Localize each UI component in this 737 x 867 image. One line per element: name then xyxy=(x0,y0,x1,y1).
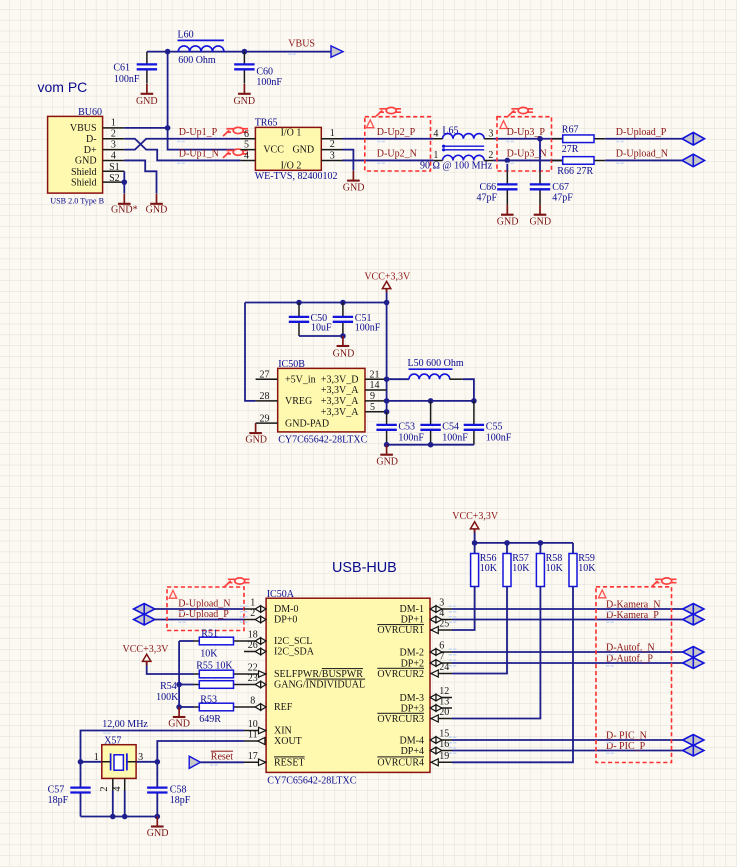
ground below C61 xyxy=(136,84,158,107)
svg-text:GND: GND xyxy=(529,216,551,227)
svg-text:DM-3: DM-3 xyxy=(400,693,424,704)
svg-text:1: 1 xyxy=(111,118,116,129)
capacitor C53 100nF xyxy=(376,412,424,445)
svg-text:10uF: 10uF xyxy=(311,323,332,334)
svg-text:DM-0: DM-0 xyxy=(274,604,298,615)
wire XOUT run xyxy=(157,741,244,762)
wire joining C50/C51 bottoms xyxy=(299,335,343,337)
svg-text:GND: GND xyxy=(292,145,314,156)
svg-text:47pF: 47pF xyxy=(476,193,497,204)
wire L65 pin2 to R66 xyxy=(493,159,562,161)
svg-text:vom PC: vom PC xyxy=(38,79,88,95)
svg-text:GND: GND xyxy=(147,828,169,839)
svg-text:GND: GND xyxy=(497,216,519,227)
ground GND* for shields xyxy=(111,194,138,216)
svg-text:9: 9 xyxy=(370,391,375,402)
resistor R51 10K (I2C_SCL) xyxy=(179,629,244,660)
wire VBUS feed down and right to TR65 pin 5 xyxy=(168,128,241,150)
svg-text:GND: GND xyxy=(343,182,365,193)
svg-text:XOUT: XOUT xyxy=(274,736,302,747)
svg-text:I/O 2: I/O 2 xyxy=(281,160,302,171)
svg-text:10K: 10K xyxy=(578,563,596,574)
node junction C53 bottom xyxy=(384,442,390,448)
resistor R54 100K (GANG) xyxy=(156,681,244,704)
wire left drop to IC50B pin 28 xyxy=(245,303,256,401)
svg-text:GANG/INDIVIDUAL: GANG/INDIVIDUAL xyxy=(274,680,365,691)
svg-text:10K: 10K xyxy=(200,649,218,660)
node junction at BU60 pin1 xyxy=(165,125,171,131)
off sheet connector D-Autof._P xyxy=(683,658,704,669)
svg-text:D-Up1_N: D-Up1_N xyxy=(179,149,219,160)
differential pair directive above D-Up3 box xyxy=(508,107,533,116)
svg-text:22: 22 xyxy=(248,663,258,674)
svg-text:D-Up2_N: D-Up2_N xyxy=(377,149,417,160)
svg-text:100nF: 100nF xyxy=(486,432,512,443)
ground below C67 xyxy=(529,205,551,228)
svg-text:6: 6 xyxy=(439,641,444,652)
node junction rail/R57 xyxy=(504,540,510,546)
svg-text:16: 16 xyxy=(439,739,449,750)
svg-text:100nF: 100nF xyxy=(442,432,468,443)
wire D-Upload_P into IC50A pin 2 xyxy=(155,619,244,621)
svg-text:Shield: Shield xyxy=(71,178,97,189)
svg-text:R51: R51 xyxy=(201,629,218,640)
pin stubs xyxy=(103,128,125,182)
resistor R57 10K xyxy=(452,543,530,674)
ground below C60 xyxy=(233,84,255,107)
wire D+ crossover to TR65 pin 6 (D-Up1_P) xyxy=(124,139,240,150)
svg-text:10K: 10K xyxy=(512,563,530,574)
svg-text:12: 12 xyxy=(439,686,449,697)
wire +3,3V rail above IC50B xyxy=(245,302,387,304)
node junction C51 bottom / gnd xyxy=(340,333,346,339)
pin stubs right 21,14,9,5 xyxy=(365,379,387,412)
capacitor C54 100nF xyxy=(420,401,468,445)
differential pair directive on D-Up1_P wire xyxy=(223,127,248,136)
svg-text:C54: C54 xyxy=(442,421,459,432)
svg-text:10: 10 xyxy=(248,719,258,730)
wire shield S1-S2 tie down xyxy=(123,171,125,193)
svg-text:GND*: GND* xyxy=(111,205,138,216)
svg-text:4: 4 xyxy=(112,787,123,792)
node junction rail/R56 xyxy=(472,540,478,546)
capacitor C57 18pF xyxy=(48,762,91,817)
svg-text:VREG: VREG xyxy=(285,396,312,407)
wire Reset to pin 17 xyxy=(200,761,244,763)
svg-text:GND: GND xyxy=(75,156,97,167)
svg-text:5: 5 xyxy=(370,402,375,413)
svg-text:D-Up1_P: D-Up1_P xyxy=(179,127,218,138)
node junction pin9 row xyxy=(384,398,390,404)
svg-text:USB-HUB: USB-HUB xyxy=(332,560,397,576)
ground below C53 xyxy=(376,445,398,468)
svg-text:D-Up2_P: D-Up2_P xyxy=(377,127,416,138)
svg-text:D-Upload_P: D-Upload_P xyxy=(616,127,667,138)
wire +3,3V_A distribution row xyxy=(387,400,474,402)
ground BU60 pin4 xyxy=(146,194,168,216)
svg-text:R67: R67 xyxy=(562,125,579,136)
wire VBUS top rail xyxy=(147,51,331,53)
svg-text:90 Ω @ 100 MHz: 90 Ω @ 100 MHz xyxy=(420,161,493,172)
svg-text:OVRCUR2: OVRCUR2 xyxy=(377,669,424,680)
svg-text:100nF: 100nF xyxy=(114,74,140,85)
node junction at S2 xyxy=(122,179,128,185)
svg-text:R55 10K: R55 10K xyxy=(196,660,233,671)
parameter set marker triangle D-Up2 xyxy=(367,120,374,128)
svg-text:OVRCUR4: OVRCUR4 xyxy=(377,757,424,768)
inductor L60 600 Ohm xyxy=(178,30,224,66)
svg-text:D- PIC_N: D- PIC_N xyxy=(606,731,647,742)
svg-text:L50 600 Ohm: L50 600 Ohm xyxy=(408,358,464,369)
svg-text:2: 2 xyxy=(111,129,116,140)
svg-text:7: 7 xyxy=(439,652,444,663)
wire R67 to port D-Upload_P xyxy=(605,138,683,140)
svg-text:C60: C60 xyxy=(256,67,273,78)
svg-text:VBUS: VBUS xyxy=(70,123,97,134)
node junction XOUT/C58/crystal xyxy=(155,759,161,765)
svg-text:SELFPWR/BUSPWR: SELFPWR/BUSPWR xyxy=(274,669,363,680)
wire TR65 pin2 to ground xyxy=(343,150,354,171)
svg-text:D-Autof._N: D-Autof._N xyxy=(606,643,655,654)
svg-text:25: 25 xyxy=(439,619,449,630)
svg-text:GND: GND xyxy=(233,96,255,107)
resistor R55 10K (SELFPWR) xyxy=(194,660,245,678)
resistor R58 10K xyxy=(452,543,564,719)
svg-text:C61: C61 xyxy=(113,63,130,74)
svg-text:Shield: Shield xyxy=(71,167,97,178)
svg-text:23: 23 xyxy=(248,673,258,684)
svg-text:2: 2 xyxy=(330,139,335,150)
svg-text:19: 19 xyxy=(439,751,449,762)
svg-text:OVRCUR3: OVRCUR3 xyxy=(377,714,424,725)
svg-text:C58: C58 xyxy=(170,784,187,795)
svg-text:VBUS: VBUS xyxy=(288,39,315,50)
differential pair directive above D-Up2 box xyxy=(376,107,401,116)
ground at IC50B pin 29 xyxy=(245,423,267,446)
wire DM-1 to D-Kamera_N xyxy=(452,608,683,610)
svg-text:600 Ohm: 600 Ohm xyxy=(178,55,216,66)
svg-text:DM-2: DM-2 xyxy=(400,647,424,658)
node junction R54 tap xyxy=(176,682,182,688)
resistor R66 27R xyxy=(552,157,606,178)
node junction C67 tap on D-Up3_P xyxy=(537,136,543,142)
wire TR65 pin3 to L65 pin1 xyxy=(343,159,434,161)
svg-text:Reset: Reset xyxy=(211,752,233,763)
off sheet connector D-Upload_P (left) xyxy=(134,614,155,625)
svg-text:15: 15 xyxy=(439,729,449,740)
node junction C66 tap on D-Up3_N xyxy=(505,158,511,164)
svg-text:VCC+3,3V: VCC+3,3V xyxy=(452,511,499,522)
differential pair directive above left box xyxy=(225,578,250,587)
off sheet connector D-Upload_P xyxy=(682,132,704,145)
off sheet connector D-Kamera_P xyxy=(683,614,704,625)
node junction VBUS rail to BU60 pin1 xyxy=(165,49,171,55)
svg-text:XIN: XIN xyxy=(274,726,292,737)
svg-text:X57: X57 xyxy=(104,735,121,746)
svg-text:18pF: 18pF xyxy=(170,795,191,806)
svg-text:3: 3 xyxy=(439,598,444,609)
crystal pins 2,4 down xyxy=(113,778,125,790)
svg-text:GND: GND xyxy=(376,457,398,468)
node junction pin5 row xyxy=(384,409,390,415)
svg-text:26: 26 xyxy=(248,640,258,651)
svg-text:12,00 MHz: 12,00 MHz xyxy=(102,719,148,730)
svg-text:100nF: 100nF xyxy=(398,432,424,443)
wire TR65 pin1 to L65 pin4 xyxy=(343,138,434,140)
capacitor C61 100nF xyxy=(113,52,157,85)
svg-text:D-Upload_N: D-Upload_N xyxy=(616,149,668,160)
resistor R56 10K xyxy=(452,543,498,630)
svg-text:24: 24 xyxy=(439,662,449,673)
wire DP+2 to D-Autof_P xyxy=(452,662,683,664)
parameter set marker triangle left xyxy=(169,590,176,598)
ground below crystal caps xyxy=(147,817,169,840)
node junction C54 bottom xyxy=(428,442,434,448)
svg-text:DM-4: DM-4 xyxy=(400,735,424,746)
node junction C58 bottom xyxy=(155,814,161,820)
svg-text:11: 11 xyxy=(248,730,258,741)
svg-text:C55: C55 xyxy=(486,421,503,432)
node junction R53 tap xyxy=(176,704,182,710)
wire D-Upload_N into IC50A pin 1 xyxy=(155,608,244,610)
svg-text:CY7C65642-28LTXC: CY7C65642-28LTXC xyxy=(267,776,356,787)
wire L50 output down to +3,3V_A row xyxy=(463,379,474,401)
node junction VBUS rail to C60 xyxy=(242,49,248,55)
pin stubs 4,3,1,2 xyxy=(433,139,493,161)
svg-text:4: 4 xyxy=(111,150,116,161)
svg-text:TR65: TR65 xyxy=(255,117,278,128)
capacitor C51 100nF xyxy=(333,303,381,337)
resistor R59 10K xyxy=(452,543,596,762)
svg-text:GND-PAD: GND-PAD xyxy=(285,418,329,429)
svg-text:21: 21 xyxy=(370,369,380,380)
svg-text:1: 1 xyxy=(433,150,438,161)
svg-text:D-Upload_N: D-Upload_N xyxy=(178,598,230,609)
node junction L50/C55 corner xyxy=(471,398,477,404)
svg-text:3: 3 xyxy=(111,139,116,150)
pin stubs right xyxy=(430,609,452,762)
ground below C66 xyxy=(497,205,519,228)
svg-text:1: 1 xyxy=(94,752,99,763)
svg-text:DP+0: DP+0 xyxy=(274,615,297,626)
svg-text:I/O 1: I/O 1 xyxy=(281,127,302,138)
wire XIN run xyxy=(81,731,245,762)
svg-text:GND: GND xyxy=(333,348,355,359)
compile mask marks xyxy=(177,141,185,143)
svg-text:1: 1 xyxy=(330,128,335,139)
svg-text:D+: D+ xyxy=(84,145,97,156)
connector BU60 USB 2.0 Type B xyxy=(48,107,125,206)
differential pair directive above right box xyxy=(652,578,677,587)
wire VCC vertical to IC50B pin 21 and down to pin 5 xyxy=(386,303,388,412)
svg-text:USB 2.0 Type B: USB 2.0 Type B xyxy=(50,197,104,206)
svg-text:IC50A: IC50A xyxy=(267,589,295,600)
svg-text:C53: C53 xyxy=(398,421,415,432)
capacitor C60 100nF xyxy=(234,52,282,88)
wire DM-4 to D-PIC_N xyxy=(452,739,683,741)
ground TR65 pin2 xyxy=(343,171,365,194)
svg-text:649R: 649R xyxy=(199,714,221,725)
svg-text:C66: C66 xyxy=(480,182,497,193)
svg-text:R53: R53 xyxy=(200,694,217,705)
svg-text:100nF: 100nF xyxy=(355,323,381,334)
svg-text:REF: REF xyxy=(274,702,293,713)
wire R51/R54/R53 common vertical to ground xyxy=(178,641,180,707)
svg-text:L60: L60 xyxy=(178,30,194,41)
pin stubs left 27,28,29 xyxy=(256,379,278,423)
wire to crystal pin3 xyxy=(136,761,157,763)
regulator IC50B CY7C65642-28LTXC xyxy=(256,359,387,445)
svg-text:D-Kamera_P: D-Kamera_P xyxy=(606,610,659,621)
svg-text:D-Kamera_N: D-Kamera_N xyxy=(606,600,660,611)
resistor R67 27R xyxy=(552,125,606,155)
svg-text:3: 3 xyxy=(138,752,143,763)
svg-text:BU60: BU60 xyxy=(78,107,102,118)
svg-text:8: 8 xyxy=(250,696,255,707)
capacitor C66 47pF xyxy=(476,160,517,204)
svg-text:+3,3V_A: +3,3V_A xyxy=(321,407,359,418)
parameter set marker triangle D-Up3 xyxy=(500,121,507,129)
svg-text:R66 27R: R66 27R xyxy=(557,166,593,177)
node junction rail/R58 xyxy=(538,540,544,546)
svg-text:DP+2: DP+2 xyxy=(401,658,424,669)
power port VBUS arrow xyxy=(331,46,343,57)
svg-text:20: 20 xyxy=(439,707,449,718)
svg-text:+5V_in: +5V_in xyxy=(285,375,316,386)
svg-text:DM-1: DM-1 xyxy=(400,604,424,615)
svg-text:GND: GND xyxy=(168,719,190,730)
svg-text:18: 18 xyxy=(248,630,258,641)
svg-text:CY7C65642-28LTXC: CY7C65642-28LTXC xyxy=(278,435,367,446)
capacitor C58 18pF xyxy=(147,762,191,817)
wire VBUS vertical down to BU60 pin 1 xyxy=(167,52,169,128)
off sheet connector D-Upload_N xyxy=(682,154,704,167)
off sheet connector D-Upload_N (left) xyxy=(134,604,155,615)
svg-text:4: 4 xyxy=(244,151,249,162)
svg-text:VCC+3,3V: VCC+3,3V xyxy=(364,272,411,283)
svg-text:4: 4 xyxy=(433,128,438,139)
svg-text:18pF: 18pF xyxy=(48,795,69,806)
wire joining C53/C54/C55 bottoms xyxy=(387,444,474,446)
svg-text:DP+3: DP+3 xyxy=(401,703,424,714)
pin stubs left xyxy=(244,609,266,762)
svg-text:27R: 27R xyxy=(562,144,579,155)
svg-text:VCC+3,3V: VCC+3,3V xyxy=(123,644,170,655)
pin stubs left 6,5,4 and right 1,2,3 xyxy=(240,139,342,161)
node junction X57 pin4 xyxy=(122,814,128,820)
power port VCC+3,3V (pull-up rail) xyxy=(452,511,499,543)
node junction X57 pin2 xyxy=(110,814,116,820)
svg-text:DP+1: DP+1 xyxy=(401,615,424,626)
svg-text:+3,3V_D: +3,3V_D xyxy=(321,375,359,386)
resistor R53 649R (REF) xyxy=(179,694,244,725)
svg-text:4: 4 xyxy=(439,608,444,619)
svg-text:GND: GND xyxy=(245,435,267,446)
svg-text:+3,3V_A: +3,3V_A xyxy=(321,396,359,407)
blanket directive box right pairs xyxy=(596,587,672,763)
svg-text:14: 14 xyxy=(370,380,380,391)
power port VCC+3,3V (regulator section) xyxy=(364,272,411,303)
TVS array TR65 WE-TVS 82400102 xyxy=(240,117,342,182)
svg-text:3: 3 xyxy=(330,150,335,161)
wire to crystal pin1 xyxy=(81,761,102,763)
ground below C50/C51 xyxy=(333,336,355,359)
svg-text:5: 5 xyxy=(244,140,249,151)
svg-text:D-: D- xyxy=(86,134,97,145)
wire BU60 pin1 to VBUS node xyxy=(124,127,167,129)
svg-text:C67: C67 xyxy=(552,182,569,193)
wire BU60 pin4 GND run xyxy=(124,160,156,193)
capacitor C67 47pF xyxy=(530,139,574,205)
blanket directive box for D-Up3 pair xyxy=(497,117,552,171)
svg-text:13: 13 xyxy=(439,697,449,708)
svg-text:2: 2 xyxy=(488,150,493,161)
svg-text:OVRCUR1: OVRCUR1 xyxy=(377,625,424,636)
svg-text:GND: GND xyxy=(136,96,158,107)
wire L65 pin3 to R67 xyxy=(493,138,562,140)
svg-text:1: 1 xyxy=(250,598,255,609)
svg-text:17: 17 xyxy=(248,751,258,762)
svg-text:10K: 10K xyxy=(546,563,564,574)
wire joining C57/X57/C58 bottoms xyxy=(81,816,158,818)
svg-text:27: 27 xyxy=(260,369,270,380)
blanket directive box for D-Up2 pair xyxy=(365,117,431,171)
svg-text:100nF: 100nF xyxy=(256,77,282,88)
ground below R53 vertical xyxy=(168,707,190,730)
blanket directive box left pair xyxy=(167,587,244,631)
off sheet connector D-PIC_N xyxy=(683,735,704,746)
svg-text:100K: 100K xyxy=(156,692,179,703)
svg-text:S2: S2 xyxy=(109,173,120,184)
node junction XIN/C57/crystal xyxy=(78,759,84,765)
svg-text:D-Up3_P: D-Up3_P xyxy=(507,127,546,138)
USB hub IC50A CY7C65642-28LTXC xyxy=(244,589,452,787)
off sheet connector D-Autof._N xyxy=(683,647,704,658)
wire pull-up rail xyxy=(475,542,573,544)
svg-text:47pF: 47pF xyxy=(552,193,573,204)
svg-text:6: 6 xyxy=(244,129,249,140)
inductor L50 600 Ohm xyxy=(387,358,464,379)
svg-text:+3,3V_A: +3,3V_A xyxy=(321,385,359,396)
svg-text:C57: C57 xyxy=(48,784,65,795)
node junction C54 tap xyxy=(428,398,434,404)
svg-text:28: 28 xyxy=(260,391,270,402)
svg-text:2: 2 xyxy=(99,787,110,792)
wire DP+4 to D-PIC_P xyxy=(452,750,683,752)
port Reset xyxy=(189,756,200,768)
capacitor C55 100nF xyxy=(464,401,512,445)
svg-text:10K: 10K xyxy=(480,563,498,574)
svg-text:R54: R54 xyxy=(160,681,177,692)
common mode choke L65 90 Ohm xyxy=(420,125,493,171)
wire D- crossover then to TR65 pin 4 (D-Up1_N) xyxy=(124,139,240,161)
svg-text:I2C_SDA: I2C_SDA xyxy=(274,647,315,658)
svg-text:2: 2 xyxy=(250,608,255,619)
node junction pin21/VCC vertical xyxy=(384,376,390,382)
off sheet connector D-PIC_P xyxy=(683,745,704,756)
svg-text:RESET: RESET xyxy=(274,757,305,768)
wire R66 to port D-Upload_N xyxy=(605,159,683,161)
svg-text:DP+4: DP+4 xyxy=(401,746,424,757)
differential pair directive on D-Up1_N wire xyxy=(223,149,248,158)
pin IO arrows left xyxy=(255,606,266,613)
wire DM-2 to D-Autof_N xyxy=(452,651,683,653)
node junction rail/C51 xyxy=(340,300,346,306)
power port VCC+3,3V (R55) xyxy=(123,644,194,674)
svg-text:IC50B: IC50B xyxy=(278,359,305,370)
wire DP+1 to D-Kamera_P xyxy=(452,619,683,621)
node junction rail/VCC vertical xyxy=(384,300,390,306)
